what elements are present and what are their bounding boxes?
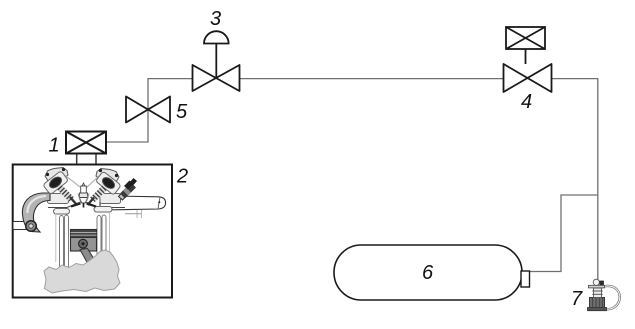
pipe connectors: valve1 to engine box (76, 154, 78, 165)
engine: spark plug (78, 183, 89, 208)
engine: crankcase blob (44, 250, 120, 293)
solenoid valve 4: box with X (506, 27, 545, 64)
svg-text:1: 1 (48, 135, 59, 157)
valve 4 bowtie (504, 64, 552, 92)
engine: right valve assembly (86, 169, 121, 207)
svg-text:3: 3 (210, 8, 221, 30)
engine: head gasket plane (48, 201, 125, 208)
engine: exhaust elbow (13, 193, 50, 232)
engine: intake runner tube (100, 196, 166, 218)
tank cap (521, 271, 530, 287)
control valve 3: actuator dome (204, 31, 229, 78)
engine: cylinder walls (56, 213, 110, 270)
filling connector 7 (588, 279, 620, 311)
engine: injector (119, 178, 138, 200)
bonnet ball (593, 279, 599, 285)
wire: box1 to valve5 elbow and up to valve3 (106, 79, 193, 142)
engine: left valve assembly (43, 168, 81, 207)
engine: port pills below gasket (54, 207, 113, 215)
engine: piston (71, 230, 97, 267)
wire: tank cap to junction (529, 195, 598, 272)
dark connector box (600, 281, 604, 286)
control valve 3: bowtie (193, 65, 240, 91)
engine: head casting blocks (48, 194, 121, 204)
flange (589, 285, 605, 288)
wire: valve3 to valve4 (240, 78, 504, 80)
svg-text:4: 4 (521, 91, 532, 113)
valve 5 bowtie (126, 97, 170, 123)
engine 2: enclosure box (13, 165, 172, 298)
base dark cylinder (590, 298, 605, 310)
svg-text:6: 6 (422, 262, 434, 284)
neck with ridges (594, 288, 602, 298)
svg-text:2: 2 (176, 166, 188, 188)
svg-text:5: 5 (176, 101, 188, 123)
solenoid valve U1 (box with X) (66, 132, 106, 154)
handle loop (603, 286, 620, 309)
tank 6 (gas cylinder) (334, 245, 522, 300)
wire: valve4 right, down to connector 7 (552, 79, 598, 281)
svg-text:7: 7 (571, 288, 583, 310)
